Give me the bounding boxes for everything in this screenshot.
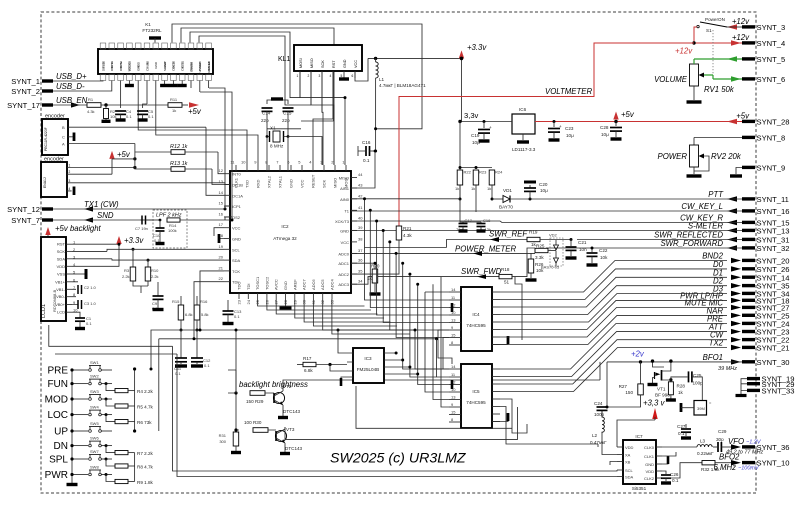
svg-text:SW4: SW4 [90,405,99,410]
svg-text:SYNT_11: SYNT_11 [757,195,789,204]
svg-text:10k: 10k [110,114,116,119]
svg-text:BAS70-05: BAS70-05 [541,265,560,270]
+5v backlight power arrow [45,227,50,235]
svg-text:C29: C29 [718,429,727,434]
svg-text:4.3k: 4.3k [403,233,412,238]
resistor R6 73k [105,413,108,416]
svg-text:1: 1 [69,164,71,168]
svg-text:24: 24 [246,299,251,304]
button column common wire [71,370,73,483]
wire CLK2 BFO2 out [662,463,702,478]
+5v encoder pullup arrow [109,151,114,159]
svg-text:SW6: SW6 [90,436,99,441]
svg-text:PWR: PWR [45,470,68,481]
svg-text:TDI: TDI [246,284,251,290]
svg-text:R16: R16 [200,299,208,304]
IC4 right pins [492,291,500,293]
arrow into SYNT_23 [731,329,741,334]
SWR_FWD routing verticals [515,277,522,340]
svg-text:14: 14 [219,190,224,195]
TX1 wire to IC2 ICP1 [225,206,230,209]
svg-text:C16: C16 [362,140,371,145]
svg-text:13: 13 [219,179,224,184]
svg-text:L1: L1 [379,77,385,82]
IC5 lower output wires [500,399,527,433]
diode VD1 BAY70 [492,198,503,200]
wire SND [53,219,140,221]
svg-text:VCC: VCC [341,240,350,245]
resistor R25 [535,248,548,252]
horizontal mid-level links near X1 [267,128,301,130]
wire CLK0 to VFO out [662,446,697,448]
arrow USB_EN [71,102,80,107]
capacitor C2 [72,282,78,290]
connector pad SYNT_31 [742,238,755,241]
svg-text:R31: R31 [219,433,227,438]
svg-text:VCCIO: VCCIO [128,61,132,71]
svg-text:41: 41 [358,205,363,210]
IC K1 FT232RL [98,49,213,74]
svg-text:FT232RL: FT232RL [142,28,162,33]
resistor R5 4.7k [105,398,108,401]
svg-text:encoder: encoder [45,114,65,120]
wire S1 to +12v junction [694,27,697,43]
svg-text:0.1: 0.1 [175,371,181,376]
resistor R1 [87,103,101,108]
svg-text:AIN0: AIN0 [340,197,350,202]
LCD SCK/SDA wires [72,251,112,258]
transistor VT1 BF998 dual-gate mosfet [661,370,663,381]
svg-text:0.22мкГ: 0.22мкГ [697,451,714,456]
arrow into SYNT_16 [727,208,737,213]
svg-text:CLK1: CLK1 [644,454,655,459]
IC2 right pins [351,177,357,179]
svg-text:6.8k: 6.8k [304,368,313,373]
svg-text:0.1: 0.1 [148,114,154,119]
arrow TX1 [84,206,93,211]
IC5 74HC595 [461,364,492,428]
potentiometer RV2 20k POWER [694,138,742,146]
svg-text:SDA: SDA [57,256,66,261]
resistor R24 [489,170,495,185]
connector pad SYNT_18 [742,299,755,302]
3.3v rail down [459,122,461,168]
svg-text:IC6: IC6 [519,107,527,112]
IC2 bottom pins [238,293,240,299]
capacitor C20 [529,198,532,201]
svg-text:R22: R22 [464,170,472,175]
encoder 2 connector [41,162,67,197]
svg-text:SWR_FORWARD: SWR_FORWARD [660,239,723,248]
arrow SND [84,217,93,222]
svg-text:PRE: PRE [47,366,68,377]
+5v red rail to SYNT_28 [535,121,742,123]
svg-text:43: 43 [358,183,363,188]
arrow into SYNT_22 [731,337,741,342]
svg-text:100 R30: 100 R30 [244,420,262,425]
arrow into SYNT_25 [731,313,741,318]
svg-text:C2 1.0: C2 1.0 [84,285,97,290]
arrow into SYNT_27 [731,305,741,310]
svg-text:0.1: 0.1 [86,321,92,326]
svg-text:K1: K1 [145,22,151,27]
svg-text:R28: R28 [677,384,686,389]
svg-text:C26: C26 [670,472,679,477]
capacitor C21 [570,238,573,241]
svg-text:VCC: VCC [354,60,358,68]
R27 150 [640,362,642,384]
IC7 gnd [662,460,668,464]
svg-text:R4 2.2k: R4 2.2k [137,389,154,394]
svg-text:C17: C17 [465,218,473,223]
svg-text:6: 6 [352,74,354,78]
svg-text:XTAL2: XTAL2 [267,175,272,188]
svg-text:2: 2 [69,170,71,174]
svg-text:15: 15 [219,201,224,206]
wire SWR_REFLECTED [577,239,742,241]
wire +3.3 top rail [368,57,462,59]
svg-text:SYNT_16: SYNT_16 [757,207,790,216]
svg-text:USB_D-: USB_D- [56,82,85,91]
svg-text:IC4: IC4 [472,312,480,317]
svg-text:+5v: +5v [621,110,635,119]
svg-text:SYNT_9: SYNT_9 [757,164,786,173]
svg-text:74HC595: 74HC595 [466,323,486,328]
resistor R17 6.8k [297,364,303,366]
svg-text:CTS: CTS [181,62,185,68]
svg-text:MISO: MISO [339,176,349,181]
svg-text:R12 1k: R12 1k [170,144,188,150]
svg-text:RV1 50k: RV1 50k [704,85,735,94]
svg-text:R1: R1 [88,97,94,102]
svg-text:R19: R19 [529,230,538,235]
svg-text:13: 13 [451,395,456,400]
svg-text:C3 1.0: C3 1.0 [84,301,97,306]
svg-text:100p: 100p [693,381,704,386]
svg-text:SYNT_13: SYNT_13 [757,227,790,236]
connector pad SYNT_4 [742,41,755,44]
svg-text:SYNT_7: SYNT_7 [11,216,40,225]
capacitor C10 [159,219,162,222]
svg-text:ADC4: ADC4 [330,279,335,290]
svg-text:IC5: IC5 [472,389,480,394]
svg-text:1k: 1k [172,108,176,113]
K1 top GND bar [149,36,161,39]
K1 bottom pin wires and grounds [53,80,103,83]
connector pad SYNT_34 [742,292,755,295]
svg-text:Si5351: Si5351 [632,486,647,491]
svg-text:2.2k: 2.2k [122,274,130,279]
svg-text:OC1A: OC1A [232,193,243,198]
svg-text:LCD1: LCD1 [41,304,47,318]
connector pad SYNT_1 [42,79,53,82]
svg-text:4: 4 [69,187,71,191]
svg-text:RST: RST [332,60,336,68]
svg-text:39M: 39M [697,406,705,411]
resistor R9 1.8k [105,473,108,476]
svg-text:C28: C28 [600,125,609,130]
svg-text:FUN: FUN [47,379,68,390]
crystal X1 8 MHz [273,131,280,142]
resistor R12 1k [135,151,171,153]
svg-text:IC3: IC3 [364,356,372,361]
svg-text:SYNT_28: SYNT_28 [757,118,790,127]
K1 top pin boxes [100,43,106,49]
encoder 1 connector [42,119,68,155]
resistor R29 [250,391,265,396]
svg-text:300: 300 [219,439,226,444]
capacitor C25 [671,377,688,380]
arrow into SYNT_15 [727,220,737,225]
svg-text:LD1117-3.3: LD1117-3.3 [512,147,536,152]
+12v main red run [399,43,694,226]
svg-text:3: 3 [319,74,321,78]
svg-text:SW2025 (c) UR3LMZ: SW2025 (c) UR3LMZ [330,451,467,467]
IC6 LD1117-3.3 [512,114,535,134]
svg-text:SYNT_17: SYNT_17 [7,101,40,110]
connector pad SYNT_13 [742,229,755,232]
svg-text:R6 73k: R6 73k [137,420,152,425]
svg-text:RDT0M88-B: RDT0M88-B [52,289,57,312]
inductor L3 [697,445,712,447]
wires from encoder/ATmega left going down [107,249,224,251]
svg-text:DTC143: DTC143 [283,409,301,414]
svg-text:DN: DN [54,441,68,452]
IC2 left pins [224,173,230,175]
svg-text:35: 35 [358,269,363,274]
svg-text:0.1: 0.1 [678,431,685,436]
svg-text:10n: 10n [579,247,587,252]
svg-text:FM25L04B: FM25L04B [357,367,379,372]
capacitor C17 [460,199,481,222]
svg-text:R7 2.2k: R7 2.2k [137,451,154,456]
svg-text:SYNT_21: SYNT_21 [757,344,790,353]
svg-text:3: 3 [69,179,71,183]
arrow into SYNT_28 [727,119,737,124]
resistor R7 2.2k [105,444,108,447]
svg-text:VB1+: VB1+ [55,279,66,284]
svg-text:C23: C23 [565,126,574,131]
resistor R18 [499,274,512,278]
svg-text:VCC: VCC [232,226,241,231]
svg-text:LOC: LOC [47,410,68,421]
svg-text:TCK: TCK [232,269,240,274]
svg-text:22p: 22p [282,118,290,123]
svg-text:34: 34 [358,279,363,284]
arrow into SYNT_14 [731,275,741,280]
svg-text:1k: 1k [471,186,475,191]
connector pad SYNT_12 [42,207,53,210]
connector pad SYNT_21 [742,346,755,349]
IC4 gnd right low [492,340,508,345]
capacitor C26 [662,471,666,474]
wire SWR_REF with arrow [365,240,528,248]
svg-text:ADC6: ADC6 [311,279,316,290]
svg-text:ADC7: ADC7 [302,279,307,290]
wire CW_KEY_L [351,210,742,212]
svg-text:RST: RST [57,242,66,247]
IC4 74HC595 [461,287,492,351]
capacitor C15 [283,107,294,109]
resistor R13 1k [135,168,171,170]
svg-text:SW8: SW8 [90,465,99,470]
connector pad SYNT_2 [42,89,53,92]
svg-text:R27: R27 [619,384,628,389]
capacitor C24 [602,406,607,408]
svg-text:19: 19 [219,244,224,249]
svg-text:MISO: MISO [333,178,338,188]
svg-text:AREF: AREF [292,279,297,290]
svg-text:+2v: +2v [631,350,645,359]
svg-text:MOD: MOD [45,395,68,406]
svg-text:BAY70: BAY70 [499,205,513,210]
svg-text:SYNT_4: SYNT_4 [757,39,786,48]
ganged dotted link S1 to RV1 [712,30,714,79]
svg-text:SYNT_2: SYNT_2 [11,87,40,96]
svg-text:VB0+: VB0+ [55,302,66,307]
svg-text:C14: C14 [262,111,271,116]
svg-text:SWR_REF: SWR_REF [489,230,528,239]
resistor R16 5.8k [196,296,198,305]
svg-text:SCK: SCK [322,179,327,188]
svg-text:1: 1 [297,74,299,78]
svg-text:37: 37 [358,248,363,253]
wire fan IC4/IC5 outputs to SYNT pads [500,261,727,293]
capacitor C28 10u [615,120,618,123]
VCC/GND left pins [214,228,224,239]
svg-text:+5v: +5v [117,150,131,159]
capacitor C5 [143,104,147,108]
svg-text:R8 4.7k: R8 4.7k [137,465,154,470]
svg-text:150 R29: 150 R29 [246,399,264,404]
svg-text:SYNT_10: SYNT_10 [757,459,790,468]
svg-text:MOSI: MOSI [299,58,303,68]
svg-text:SND: SND [97,211,114,220]
svg-text:39: 39 [358,225,363,230]
svg-text:VCC: VCC [300,179,305,188]
arrow into SYNT_6 [731,76,741,81]
connector pad SYNT_22 [742,338,755,341]
svg-text:R10: R10 [151,268,159,273]
svg-text:0.1: 0.1 [672,478,679,483]
svg-text:~1.2V: ~1.2V [746,440,762,446]
svg-text:VOLUME: VOLUME [654,75,688,84]
bottom mid horizontal wires [356,386,512,428]
svg-text:R23: R23 [479,170,487,175]
resistor R21 4.3k on voltmeter line [396,226,402,240]
IC KL1 programming header [294,45,362,71]
wires top bus to right verticals [374,150,377,153]
wire AIN1 to C16 [351,151,375,188]
svg-text:C20: C20 [539,182,548,187]
svg-text:100k: 100k [168,228,177,233]
svg-text:KL1: KL1 [278,56,291,63]
svg-text:22: 22 [219,276,224,281]
svg-text:3.3k: 3.3k [535,255,544,260]
svg-text:0.47мкГ: 0.47мкГ [590,440,607,445]
connector pad SYNT_24 [742,322,755,325]
connector pad SYNT_3 [742,25,755,28]
arrow into SYNT_13 [727,228,737,233]
long verticals under IC2 from SND/TCK etc [194,271,224,339]
3.3v line into IC6 [460,121,512,123]
svg-text:PTT: PTT [708,190,724,199]
connector pad SYNT_20 [742,259,755,262]
+5v arrow right (red) [189,102,199,107]
svg-text:SYNT_1: SYNT_1 [11,77,40,86]
capacitor C3 [72,297,78,305]
svg-text:VDD: VDD [646,469,655,474]
connector pad SYNT_36 [742,445,755,448]
wire SWR_FORWARD [546,247,742,249]
resistor R31 300 [235,393,237,430]
svg-text:C19: C19 [471,133,480,138]
svg-text:22p: 22p [261,118,269,123]
connector pad SYNT_5 [742,57,755,60]
svg-text:51: 51 [504,280,510,285]
svg-text:+: + [559,124,562,129]
svg-text:USBDP: USBDP [198,62,202,72]
connector pad SYNT_23 [742,330,755,333]
svg-text:C24: C24 [594,401,603,406]
capacitor C11 [180,330,182,358]
svg-text:4.7мкГ | BLM18AG471: 4.7мкГ | BLM18AG471 [379,83,426,88]
LCD VSS gnd bar [72,273,86,275]
svg-text:TXD: TXD [101,61,105,68]
resistor R15 6.8k [180,296,182,305]
svg-text:5.8k: 5.8k [201,312,209,317]
svg-text:SCL: SCL [625,468,634,473]
IC4-IC5 cascade links [438,330,452,369]
svg-text:RTS: RTS [119,62,123,68]
svg-text:R32 1.5k: R32 1.5k [701,467,720,472]
connector pad SYNT_29 [747,382,760,385]
svg-text:CLK0: CLK0 [644,445,655,450]
svg-text:XA: XA [625,453,631,458]
svg-text:VB0-: VB0- [56,294,66,299]
svg-text:SW1: SW1 [90,360,99,365]
svg-text:IC2: IC2 [281,224,289,229]
svg-text:ADC2: ADC2 [338,272,349,277]
backlight drive vertical [235,330,237,393]
svg-text:100p: 100p [594,412,605,417]
svg-text:VDD: VDD [57,264,66,269]
arrow into SYNT_10 [731,460,741,465]
svg-text:ADC0: ADC0 [338,251,349,256]
SYNT_9 ground stub [736,168,742,175]
svg-text:R3: R3 [124,268,130,273]
svg-text:TXD: TXD [245,180,250,188]
svg-text:40: 40 [358,216,363,221]
wire TX1 (CW) [53,208,225,210]
svg-text:2.2k: 2.2k [151,274,159,279]
svg-text:INT0: INT0 [232,172,241,177]
svg-text:SW7: SW7 [90,449,99,454]
svg-text:B: B [62,125,65,130]
svg-text:SW3: SW3 [90,389,99,394]
svg-text:SYNT_32: SYNT_32 [757,244,790,253]
connector pad SYNT_32 [742,246,755,249]
svg-text:GND: GND [232,237,241,242]
svg-text:C18: C18 [483,218,491,223]
arrow into SYNT_31 [727,237,737,242]
resistor R14 100k [167,218,180,222]
svg-text:C21: C21 [578,240,587,245]
svg-text:13: 13 [451,318,456,323]
IC3 pins [347,353,353,377]
svg-text:USB_D+: USB_D+ [56,72,87,81]
arrow into SYNT_20 [731,258,741,263]
